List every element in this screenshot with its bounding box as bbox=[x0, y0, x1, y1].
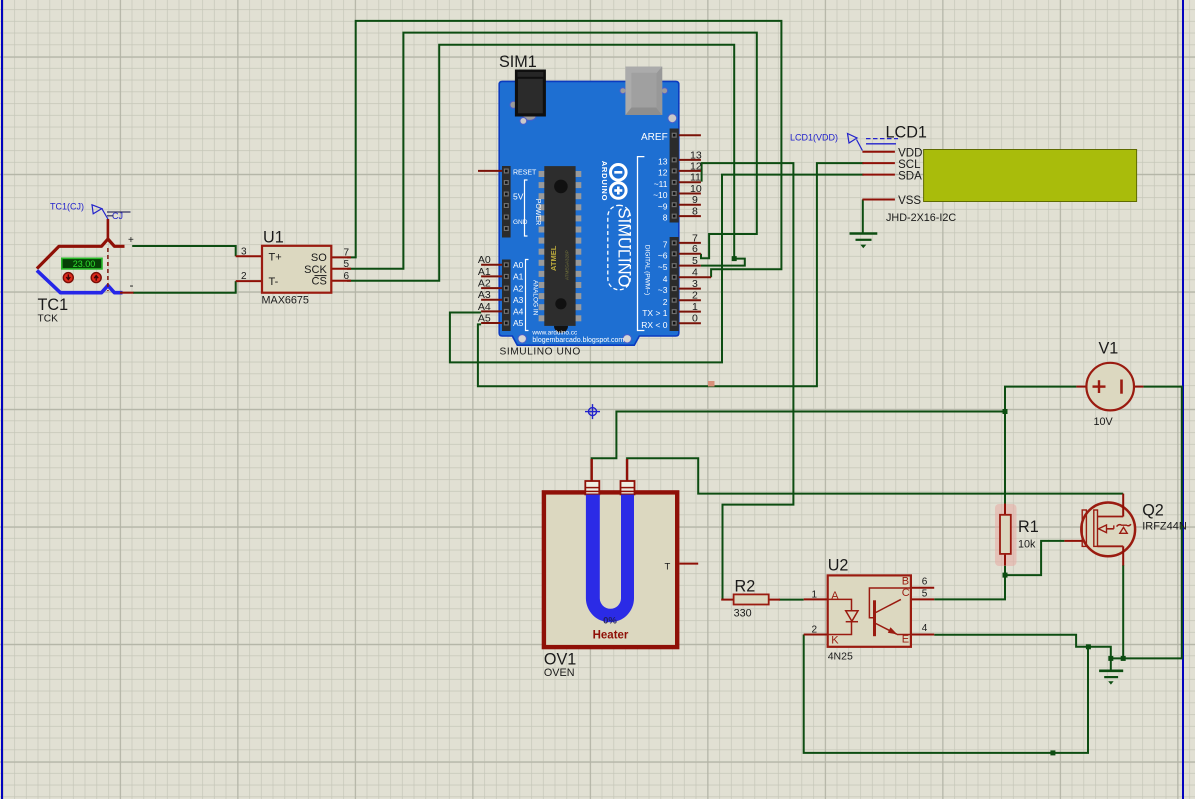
svg-text:U1: U1 bbox=[263, 229, 284, 247]
svg-text:A5: A5 bbox=[478, 312, 491, 324]
SIM1 logo minus circle bbox=[611, 165, 627, 181]
svg-text:LCD1(VDD): LCD1(VDD) bbox=[790, 132, 838, 142]
junction node at inner arc and pin5 bbox=[732, 256, 737, 261]
svg-text:U2: U2 bbox=[828, 557, 849, 575]
svg-text:SDA: SDA bbox=[898, 170, 922, 182]
svg-text:0: 0 bbox=[692, 313, 698, 325]
R2 right lead bbox=[769, 599, 780, 601]
svg-text:4: 4 bbox=[692, 267, 698, 279]
origin marker crosshair bbox=[585, 404, 600, 419]
svg-text:2: 2 bbox=[812, 624, 818, 635]
U2 pin1 lead bbox=[804, 598, 828, 600]
svg-text:A2: A2 bbox=[478, 278, 491, 290]
optocoupler U2 4N25 bbox=[804, 557, 935, 663]
svg-text:MAX6675: MAX6675 bbox=[262, 295, 309, 307]
svg-text:VSS: VSS bbox=[898, 195, 921, 207]
svg-text:4: 4 bbox=[663, 274, 668, 284]
svg-text:A1: A1 bbox=[513, 272, 524, 282]
svg-text:JHD-2X16-I2C: JHD-2X16-I2C bbox=[886, 212, 956, 224]
wire node down to R1 top bbox=[1004, 412, 1006, 506]
wire Q2 source to ground row bbox=[1122, 565, 1124, 658]
svg-text:5: 5 bbox=[692, 255, 698, 267]
svg-text:12: 12 bbox=[690, 160, 702, 172]
Arduino module SIM1 SIMULINO UNO bbox=[478, 53, 711, 358]
SIM1 digital header lower bbox=[670, 237, 679, 331]
wire Arduino A5 to LCD SCL bbox=[478, 163, 864, 386]
svg-text:IRFZ44N: IRFZ44N bbox=[1142, 520, 1187, 532]
wire oven right pin to Q2 drain bbox=[627, 458, 1123, 493]
Q2 source stub bbox=[1122, 546, 1124, 565]
OV1 left terminal cap bbox=[585, 481, 599, 494]
SIM1 RESET/POWER header bbox=[502, 166, 511, 238]
svg-text:10: 10 bbox=[690, 183, 702, 195]
svg-text:www.arduino.cc: www.arduino.cc bbox=[531, 330, 578, 337]
Q2 body arrow bbox=[1098, 528, 1114, 530]
SIM1 analog labels A0..A5 bbox=[478, 254, 491, 324]
wire U1.SO pin7 to Arduino pin4 (outer top arc) bbox=[347, 21, 781, 277]
svg-text:8: 8 bbox=[692, 206, 698, 218]
Q2 body circle bbox=[1081, 503, 1135, 557]
svg-text:1: 1 bbox=[692, 301, 698, 313]
svg-text:A1: A1 bbox=[478, 266, 491, 278]
V1 left lead bbox=[1076, 386, 1087, 388]
R2 body bbox=[734, 594, 769, 604]
svg-text:10V: 10V bbox=[1094, 416, 1114, 428]
U1 pin5 lead bbox=[331, 268, 351, 270]
svg-text:A3: A3 bbox=[478, 289, 491, 301]
LCD1 flag triangle bbox=[848, 134, 858, 144]
ground symbol main (near Q2 source) bbox=[1099, 658, 1123, 684]
svg-text:6: 6 bbox=[692, 243, 698, 255]
TC1 flag triangle bbox=[92, 205, 102, 214]
wire TC1 minus to U1 T- bbox=[133, 281, 236, 293]
svg-text:13: 13 bbox=[658, 156, 668, 166]
R1 top lead bbox=[1004, 504, 1006, 515]
svg-text:A3: A3 bbox=[513, 295, 524, 305]
junction node Q2 source bbox=[1121, 656, 1126, 661]
TC1 lower arm blue bbox=[37, 270, 123, 292]
svg-text:~10: ~10 bbox=[653, 190, 668, 200]
resistor R1 10k bbox=[995, 504, 1039, 567]
Q2 gate lead bbox=[1064, 540, 1083, 542]
Q2 channel bar bbox=[1094, 510, 1098, 546]
SIM1 pin number labels right 13..8 bbox=[690, 149, 702, 217]
svg-text:RESET: RESET bbox=[513, 170, 537, 177]
U2 LED symbol bbox=[828, 599, 858, 634]
svg-text:~11: ~11 bbox=[654, 179, 668, 189]
wire R2 to U2 anode pin1 bbox=[779, 599, 804, 601]
svg-text:POWER: POWER bbox=[534, 199, 541, 225]
LCD1 VSS stub bbox=[862, 199, 895, 201]
svg-text:5: 5 bbox=[922, 589, 928, 600]
V1 plus symbol bbox=[1093, 385, 1106, 387]
TC1 display 23.00 bbox=[62, 258, 102, 269]
V1 right lead bbox=[1134, 386, 1144, 388]
svg-text:SIMULINO UNO: SIMULINO UNO bbox=[500, 347, 581, 358]
U2 phototransistor symbol bbox=[869, 588, 911, 636]
SIM1 USB connector bbox=[620, 88, 626, 94]
wire TC1 plus to U1 T+ bbox=[132, 246, 236, 256]
svg-text:VDD: VDD bbox=[898, 148, 922, 160]
svg-text:SO: SO bbox=[311, 252, 327, 264]
svg-text:2: 2 bbox=[241, 271, 247, 282]
sheet border left bbox=[1, 0, 3, 799]
junction node ground stem bbox=[1108, 656, 1113, 661]
svg-text:8: 8 bbox=[663, 213, 668, 223]
svg-text:TC1: TC1 bbox=[38, 296, 69, 314]
OV1 left pin stub bbox=[591, 459, 593, 482]
SIM1 analog stubs A0..A5 bbox=[481, 265, 502, 323]
LCD1 dashed net lines bbox=[866, 138, 898, 140]
wire oven left pin to V1+ and node R1 top bbox=[592, 412, 1005, 461]
LCD display LCD1 JHD-2X16-I2C bbox=[790, 124, 1137, 225]
SIM1 AREF stub bbox=[679, 134, 701, 136]
SIM1 pin number labels right 7..0 bbox=[692, 232, 698, 324]
SIM1 digital header upper bbox=[670, 129, 679, 223]
svg-text:C: C bbox=[902, 587, 910, 599]
wire Arduino A4 to LCD SDA bbox=[450, 175, 864, 363]
junction node E-net loop bbox=[1086, 644, 1091, 649]
svg-text:blogembarcado.blogspot.com: blogembarcado.blogspot.com bbox=[532, 337, 624, 344]
svg-text:E: E bbox=[902, 634, 909, 646]
svg-text:~3: ~3 bbox=[658, 285, 668, 295]
svg-text:~6: ~6 bbox=[658, 250, 668, 260]
svg-text:ANALOG IN: ANALOG IN bbox=[532, 280, 539, 316]
SIM1 board outline bbox=[499, 81, 679, 345]
U2 pin2 lead bbox=[804, 634, 828, 636]
R1 bottom lead bbox=[1004, 554, 1006, 566]
svg-text:R1: R1 bbox=[1018, 518, 1039, 536]
svg-text:B: B bbox=[902, 576, 909, 588]
U1 pin2 lead bbox=[236, 280, 262, 282]
U2 pin4 lead bbox=[911, 634, 934, 636]
U2 pin5 lead bbox=[911, 598, 934, 600]
svg-text:CS: CS bbox=[312, 275, 327, 287]
R1 body bbox=[1000, 515, 1011, 554]
SIM1 analog header bbox=[502, 260, 511, 332]
TC1 CJ stem bbox=[107, 219, 110, 241]
SIM1 RESET stub bbox=[478, 170, 502, 172]
Q2 body diode bbox=[1113, 525, 1115, 528]
svg-text:A5: A5 bbox=[513, 318, 524, 328]
svg-text:12: 12 bbox=[658, 168, 668, 178]
svg-text:ARDUINO: ARDUINO bbox=[600, 161, 609, 202]
LCD1 screen bbox=[924, 150, 1137, 202]
svg-text:330: 330 bbox=[734, 608, 752, 620]
stray red marker dot bbox=[708, 381, 715, 387]
wire node to V1+ bbox=[1005, 387, 1076, 412]
V1 bar symbol bbox=[1120, 380, 1123, 394]
svg-text:6: 6 bbox=[344, 271, 350, 282]
V1 body bbox=[1086, 363, 1134, 411]
SIM1 analog pin names white bbox=[513, 260, 524, 328]
svg-text:6: 6 bbox=[922, 577, 928, 588]
SIM1 right pin stubs 7..0 bbox=[679, 243, 711, 323]
svg-text:A0: A0 bbox=[478, 254, 491, 266]
svg-text:4: 4 bbox=[922, 623, 928, 634]
svg-text:A0: A0 bbox=[513, 260, 524, 270]
SIM1 ATmega chip bbox=[539, 166, 582, 333]
svg-text:A4: A4 bbox=[478, 301, 491, 313]
Q2 gate bar bbox=[1082, 510, 1086, 546]
U2 body bbox=[828, 575, 911, 646]
svg-text:10k: 10k bbox=[1018, 539, 1036, 551]
svg-text:Q2: Q2 bbox=[1142, 502, 1164, 520]
svg-text:~5: ~5 bbox=[658, 262, 668, 272]
OV1 T pin stub bbox=[679, 563, 698, 565]
battery V1 10V bbox=[1076, 340, 1143, 429]
SIM1 SIMULINO oval bbox=[608, 205, 631, 289]
svg-text:2: 2 bbox=[663, 297, 668, 307]
svg-text:A2: A2 bbox=[513, 283, 524, 293]
SIM1 right pin stubs 13..8 bbox=[679, 160, 701, 216]
svg-text:23.00: 23.00 bbox=[73, 259, 96, 269]
svg-text:-: - bbox=[130, 278, 134, 292]
svg-text:A: A bbox=[831, 590, 839, 602]
wire R1 bottom node to Q2 gate bbox=[1005, 541, 1064, 575]
Q2 drain internal bbox=[1098, 516, 1124, 518]
svg-text:SIM1: SIM1 bbox=[499, 53, 537, 71]
svg-text:TC1(CJ): TC1(CJ) bbox=[50, 202, 84, 212]
LCD1 SCL stub bbox=[862, 162, 895, 164]
svg-text:A4: A4 bbox=[513, 307, 524, 317]
svg-text:V1: V1 bbox=[1099, 340, 1119, 358]
TC1 minus red stub bbox=[120, 292, 134, 294]
wire U1.CS pin6 to Arduino pin5 (inner top arc) bbox=[347, 45, 745, 281]
LCD1 VDD stub bbox=[862, 151, 895, 153]
U1 pin6 lead bbox=[331, 280, 351, 282]
svg-text:4N25: 4N25 bbox=[828, 651, 853, 663]
svg-text:Heater: Heater bbox=[593, 630, 629, 642]
svg-text:TX > 1: TX > 1 bbox=[642, 308, 668, 318]
svg-text:11: 11 bbox=[690, 172, 701, 184]
svg-text:5V: 5V bbox=[513, 192, 524, 202]
svg-text:3: 3 bbox=[241, 246, 247, 257]
U2 pin6 lead bbox=[911, 587, 934, 589]
svg-text:DIGITAL (PWM~): DIGITAL (PWM~) bbox=[644, 245, 651, 295]
svg-text:9: 9 bbox=[692, 194, 698, 206]
OV1 heater element blue U bbox=[586, 495, 634, 623]
TC1 button down bbox=[63, 273, 73, 283]
Q2 drain stub bbox=[1122, 494, 1124, 517]
MOSFET Q2 IRFZ44N bbox=[1064, 494, 1186, 566]
resistor R2 330 bbox=[721, 578, 780, 620]
wire U2 cathode pin2 to bottom loop bbox=[804, 635, 1088, 753]
svg-text:SIMULINO: SIMULINO bbox=[615, 208, 633, 288]
svg-text:7: 7 bbox=[663, 240, 668, 250]
R1 selection glow bbox=[995, 504, 1017, 566]
svg-text:+: + bbox=[128, 235, 134, 246]
thermocouple TC1 bbox=[37, 202, 134, 325]
svg-text:K: K bbox=[831, 634, 839, 646]
svg-text:GND: GND bbox=[513, 219, 528, 226]
LCD1 SDA stub bbox=[862, 174, 895, 176]
svg-text:SCK: SCK bbox=[304, 264, 327, 276]
SIM1 digital pin names white bbox=[641, 156, 668, 329]
svg-text:SCL: SCL bbox=[898, 159, 921, 171]
wire ground row bbox=[1111, 387, 1182, 659]
svg-text:~9: ~9 bbox=[658, 201, 668, 211]
svg-text:AREF: AREF bbox=[641, 132, 668, 143]
SIM1 ANALOG IN bracket bbox=[526, 260, 529, 331]
OV1 right terminal cap bbox=[621, 481, 635, 494]
SIM1 mounting holes bbox=[520, 118, 527, 125]
U1 body bbox=[262, 246, 331, 293]
svg-text:OV1: OV1 bbox=[544, 651, 576, 669]
OV1 body bbox=[544, 492, 677, 647]
SIM1 logo plus circle bbox=[611, 183, 627, 199]
svg-text:RX < 0: RX < 0 bbox=[641, 320, 667, 330]
OV1 right pin stub bbox=[626, 459, 628, 482]
U1 pin7 lead bbox=[331, 256, 351, 258]
wire U2 collector pin5 to R1 bottom bbox=[934, 565, 1005, 599]
sheet border right bbox=[1182, 0, 1184, 799]
svg-text:2: 2 bbox=[692, 290, 698, 302]
SIM1 power jack bbox=[510, 101, 517, 108]
svg-text:3: 3 bbox=[692, 278, 698, 290]
TC1 dashed divider bbox=[107, 248, 109, 291]
svg-text:ATMEL: ATMEL bbox=[549, 245, 558, 271]
svg-text:ATMEGA328P: ATMEGA328P bbox=[565, 250, 570, 280]
svg-text:OVEN: OVEN bbox=[544, 667, 575, 679]
R2 left lead bbox=[721, 599, 733, 601]
svg-text:LCD1: LCD1 bbox=[886, 124, 927, 142]
TC1 button up bbox=[91, 273, 101, 283]
Q2 source internal bbox=[1098, 545, 1124, 547]
svg-text:T-: T- bbox=[269, 276, 279, 288]
SIM1 DIGITAL bracket bbox=[638, 157, 645, 331]
svg-text:5: 5 bbox=[344, 259, 350, 270]
wire LCD VSS to ground bbox=[862, 200, 864, 234]
svg-text:T: T bbox=[665, 562, 671, 573]
TC1 upper arm dark red bbox=[37, 239, 125, 269]
junction node V1/R1 tee bbox=[1003, 409, 1008, 414]
svg-text:1: 1 bbox=[812, 590, 818, 601]
junction node R1 bottom tee bbox=[1003, 573, 1008, 578]
svg-text:T+: T+ bbox=[269, 251, 282, 263]
ground symbol below LCD VSS bbox=[850, 234, 878, 249]
wire Arduino pin11 to R2 bbox=[702, 163, 794, 599]
wire U1.SCK pin5 to Arduino pin6 (middle top arc) bbox=[347, 33, 757, 269]
junction node bottom loop bbox=[1050, 750, 1055, 755]
svg-text:7: 7 bbox=[344, 247, 350, 258]
U1 pin3 lead bbox=[236, 255, 262, 257]
oven OV1 bbox=[544, 459, 698, 679]
wire U2 emitter pin4 to ground node bbox=[934, 635, 1111, 659]
svg-text:0%: 0% bbox=[603, 616, 617, 627]
SIM1 POWER bracket bbox=[525, 180, 528, 236]
svg-text:TCK: TCK bbox=[38, 314, 59, 325]
svg-text:R2: R2 bbox=[735, 578, 756, 596]
op-amp U1 MAX6675 bbox=[236, 229, 351, 307]
